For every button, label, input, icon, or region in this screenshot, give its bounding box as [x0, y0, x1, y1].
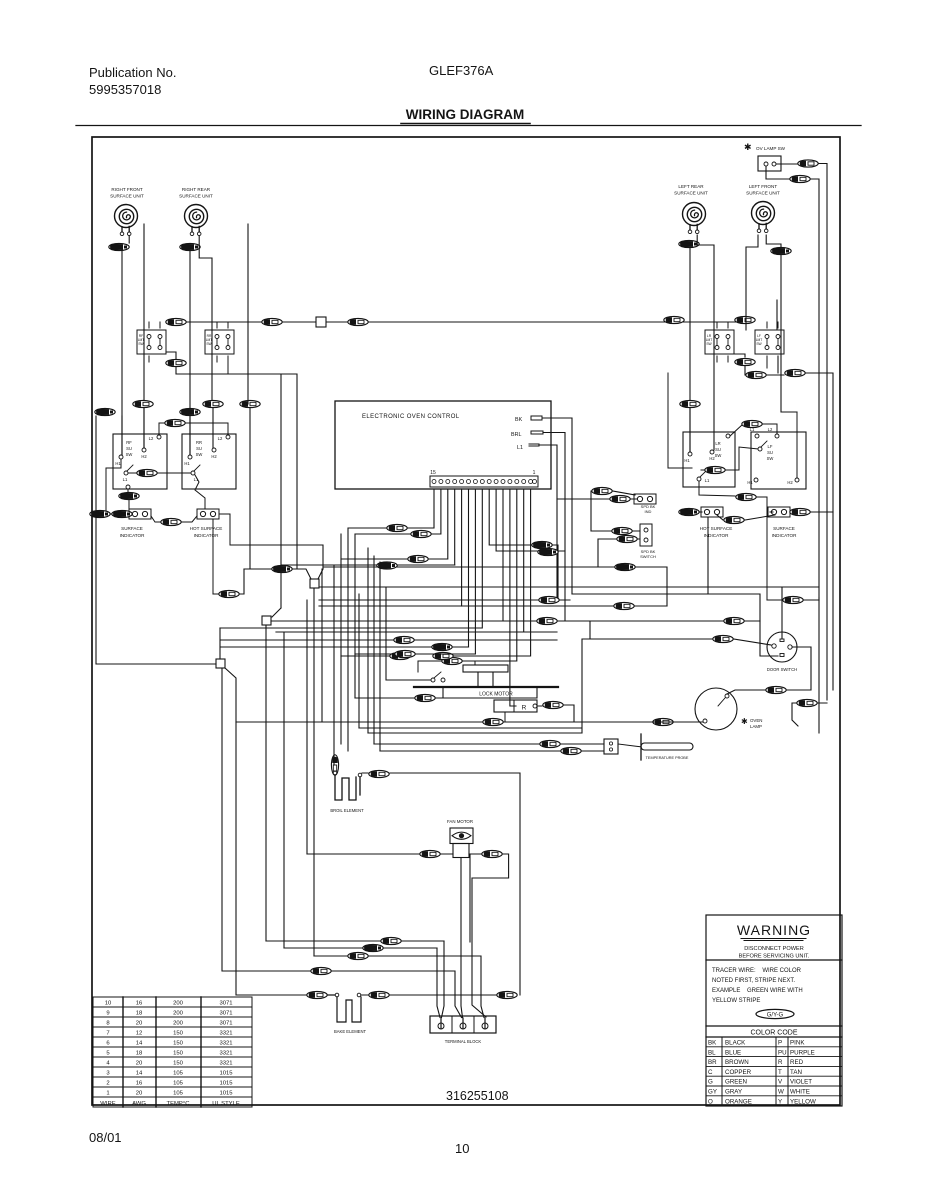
- connector rf-rr contact link: [128, 472, 136, 474]
- wire probe bus: [374, 744, 560, 751]
- svg-text:20: 20: [136, 1091, 143, 1097]
- node square A: [310, 579, 319, 588]
- svg-text:PU: PU: [778, 1049, 787, 1056]
- svg-text:L1: L1: [705, 478, 710, 483]
- connector fan right: [482, 850, 502, 857]
- svg-text:RED: RED: [790, 1059, 804, 1066]
- svg-text:105: 105: [173, 1081, 184, 1087]
- svg-text:SW: SW: [756, 342, 762, 346]
- eoc terminal strip: [430, 476, 538, 487]
- svg-text:BAKE ELEMENT: BAKE ELEMENT: [334, 1029, 367, 1034]
- wire eoc drop t4: [510, 489, 516, 706]
- wire eoc drop t11: [461, 489, 463, 606]
- wire bus y606: [319, 605, 667, 607]
- svg-text:TRACER WIRE: WIRE COLOR: TRACER WIRE: WIRE COLOR: [712, 968, 802, 974]
- wire lf limit drops: [767, 322, 778, 373]
- wire eoc drop t15: [355, 489, 434, 528]
- svg-text:1015: 1015: [219, 1091, 233, 1097]
- svg-text:BR: BR: [708, 1059, 717, 1066]
- svg-text:200: 200: [173, 1001, 184, 1007]
- svg-text:LEFT FRONT: LEFT FRONT: [749, 184, 777, 189]
- svg-text:GY: GY: [708, 1089, 717, 1096]
- wire eoc drop t9: [474, 489, 476, 654]
- wire rr coil left lead down: [189, 250, 191, 456]
- wire rf l1 to indicator: [127, 489, 129, 495]
- lock motor body: [443, 687, 537, 698]
- wire eoc drop t7: [489, 489, 558, 600]
- svg-text:150: 150: [173, 1051, 184, 1057]
- svg-text:RR: RR: [196, 440, 202, 445]
- connector rr surface unit: [180, 243, 200, 250]
- svg-text:18: 18: [136, 1011, 143, 1017]
- wire hot ind right down: [213, 514, 323, 594]
- svg-text:FAN MOTOR: FAN MOTOR: [447, 819, 473, 824]
- svg-text:GREEN: GREEN: [725, 1079, 747, 1086]
- svg-text:1015: 1015: [219, 1081, 233, 1087]
- svg-text:H2: H2: [211, 454, 217, 459]
- svg-text:IND: IND: [645, 509, 652, 514]
- rr su sw box: [182, 434, 236, 489]
- svg-text:150: 150: [173, 1031, 184, 1037]
- svg-text:GRAY: GRAY: [725, 1089, 742, 1096]
- lr limit switch: [705, 330, 734, 354]
- svg-text:RIGHT FRONT: RIGHT FRONT: [111, 187, 142, 192]
- node square C: [216, 659, 225, 668]
- wire rr third drop: [247, 224, 249, 401]
- connector row above su left: [95, 408, 115, 415]
- wire rr coil right lead: [199, 236, 212, 401]
- svg-text:L1: L1: [517, 445, 523, 451]
- wire bus y587: [319, 567, 819, 606]
- svg-text:16: 16: [136, 1081, 143, 1087]
- wire right row to frame drop: [745, 356, 833, 690]
- svg-text:316255108: 316255108: [446, 1089, 509, 1103]
- svg-text:LOCK MOTOR: LOCK MOTOR: [479, 692, 513, 698]
- svg-text:R: R: [778, 1059, 783, 1066]
- svg-text:SURFACE: SURFACE: [121, 526, 143, 531]
- temperature probe body: [640, 734, 642, 760]
- node square bus: [316, 317, 326, 327]
- wire limit lower left to rr: [176, 367, 297, 608]
- wire lf connector down: [777, 256, 797, 413]
- wire eoc drop t13: [341, 489, 448, 559]
- connector lr su pr: [736, 493, 756, 500]
- lf su sw box: [751, 432, 806, 489]
- svg-text:C: C: [708, 1069, 713, 1076]
- svg-text:3321: 3321: [219, 1041, 232, 1047]
- right rear surface unit coil: [185, 205, 208, 236]
- svg-text:H1: H1: [115, 461, 121, 466]
- svg-text:SW: SW: [126, 452, 133, 457]
- svg-text:DISCONNECT POWER: DISCONNECT POWER: [744, 946, 804, 952]
- wire node A down: [313, 588, 315, 956]
- svg-text:WHITE: WHITE: [790, 1089, 810, 1096]
- svg-text:16: 16: [136, 1001, 143, 1007]
- svg-text:9: 9: [106, 1011, 109, 1017]
- spd bk ind: [592, 487, 612, 494]
- connector ov lamp upper: [798, 160, 818, 167]
- wire into node B top: [272, 608, 284, 948]
- svg-text:L2: L2: [149, 436, 154, 441]
- wire eoc drop t10: [468, 489, 470, 647]
- tracer wire paragraph: [712, 968, 803, 1004]
- svg-text:WARNING: WARNING: [737, 922, 811, 938]
- tracer example oval: [756, 1009, 794, 1018]
- color code table text: [708, 1040, 816, 1106]
- wire ov lamp upper to right drop: [819, 164, 827, 701]
- connector bus a: [166, 318, 186, 325]
- svg-text:UL STYLE: UL STYLE: [212, 1101, 240, 1107]
- wire eoc drop t8: [220, 489, 482, 628]
- connector probe b: [561, 747, 581, 754]
- wire eoc l1 out: [539, 445, 557, 600]
- connector lf surface unit: [771, 247, 791, 254]
- connector lr-lf contact link: [701, 469, 704, 471]
- svg-text:P: P: [778, 1040, 782, 1047]
- wire node C top: [219, 628, 221, 659]
- svg-text:5995357018: 5995357018: [89, 82, 161, 97]
- svg-text:10: 10: [105, 1001, 112, 1007]
- connector ov lamp lower: [790, 175, 810, 182]
- svg-text:BROIL ELEMENT: BROIL ELEMENT: [330, 808, 364, 813]
- svg-text:BK: BK: [515, 417, 523, 423]
- svg-text:2: 2: [106, 1081, 109, 1087]
- connector right row f: [746, 371, 766, 378]
- svg-text:INDICATOR: INDICATOR: [704, 533, 730, 538]
- connector lock upper: [442, 657, 462, 664]
- wire door switch right out: [787, 647, 811, 690]
- svg-text:INDICATOR: INDICATOR: [120, 533, 146, 538]
- wire lr su l1 to connector: [699, 481, 735, 496]
- svg-text:G/Y-G: G/Y-G: [767, 1013, 784, 1019]
- svg-text:VIOLET: VIOLET: [790, 1079, 812, 1086]
- wire rf limit drops: [149, 322, 160, 362]
- svg-text:NOTED FIRST, STRIPE NEXT.: NOTED FIRST, STRIPE NEXT.: [712, 978, 795, 984]
- wire node B right y621: [271, 620, 668, 622]
- svg-text:SW: SW: [706, 342, 712, 346]
- rf limit switch: [137, 330, 166, 354]
- svg-text:H2: H2: [141, 454, 147, 459]
- svg-text:✱: ✱: [741, 717, 748, 726]
- wire bottom bus y948: [363, 944, 383, 951]
- wire terminal feeds: [437, 941, 444, 1018]
- svg-text:14: 14: [136, 1041, 143, 1047]
- svg-text:H2: H2: [709, 456, 715, 461]
- svg-text:1: 1: [533, 470, 536, 476]
- wire oven lamp left: [653, 718, 673, 725]
- svg-text:SURFACE UNIT: SURFACE UNIT: [746, 191, 780, 196]
- svg-text:SWITCH: SWITCH: [640, 554, 656, 559]
- svg-text:SURFACE: SURFACE: [773, 526, 795, 531]
- svg-text:W: W: [778, 1089, 784, 1096]
- top bus y322: [166, 321, 740, 323]
- left rear surface unit coil: [683, 203, 706, 234]
- wire gauge table: [93, 997, 252, 1107]
- svg-text:RF: RF: [126, 440, 132, 445]
- broil element: [331, 755, 338, 775]
- svg-text:20: 20: [136, 1061, 143, 1067]
- connector lr limit bottom: [735, 358, 755, 365]
- wire feed lr contact: [668, 373, 692, 468]
- wire bottom vertical 470: [470, 854, 475, 942]
- svg-text:LF: LF: [768, 444, 773, 449]
- svg-text:H1: H1: [684, 458, 690, 463]
- wire lr coil left lead down: [689, 249, 691, 453]
- svg-text:SURFACE UNIT: SURFACE UNIT: [674, 191, 708, 196]
- svg-text:GLEF376A: GLEF376A: [429, 63, 494, 78]
- wire rr limit drops: [217, 322, 228, 374]
- svg-text:SW: SW: [767, 456, 774, 461]
- wire rf coil left lead down: [121, 250, 123, 456]
- svg-text:7: 7: [106, 1031, 109, 1037]
- svg-text:10: 10: [455, 1141, 469, 1156]
- svg-text:L1: L1: [123, 477, 128, 482]
- terminal block: [430, 1016, 496, 1033]
- wire lock pedestal drop: [504, 712, 506, 722]
- wire bundle vertical 341: [340, 534, 342, 744]
- svg-text:3071: 3071: [219, 1001, 232, 1007]
- wire lf coil right lead to connector: [766, 235, 781, 247]
- connector rf surface unit: [109, 243, 129, 250]
- svg-text:✱: ✱: [744, 142, 752, 152]
- svg-text:O: O: [708, 1098, 713, 1105]
- wire rf second drop: [143, 224, 145, 448]
- wire bundle vertical 378: [386, 587, 431, 680]
- node square B: [262, 616, 271, 625]
- svg-text:SW: SW: [196, 452, 203, 457]
- svg-text:SURFACE UNIT: SURFACE UNIT: [110, 194, 144, 199]
- wire door switch left feed: [713, 635, 733, 642]
- svg-text:COPPER: COPPER: [725, 1069, 752, 1076]
- lock switch: [431, 678, 435, 682]
- connector bake right: [369, 991, 389, 998]
- svg-text:EXAMPLE GREEN WIRE WITH: EXAMPLE GREEN WIRE WITH: [712, 988, 803, 994]
- wire ov lamp lower to drop: [811, 179, 819, 598]
- lf limit switch: [755, 330, 784, 354]
- wire left vertical 96: [96, 416, 216, 664]
- oven lamp: [695, 688, 737, 730]
- svg-text:08/01: 08/01: [89, 1130, 122, 1145]
- svg-text:3321: 3321: [219, 1031, 232, 1037]
- svg-text:105: 105: [173, 1071, 184, 1077]
- wire node C down diagonal: [222, 668, 310, 995]
- connector ind link: [151, 516, 160, 522]
- connector bus c: [348, 318, 368, 325]
- wire lf coil left lead down: [746, 235, 758, 330]
- svg-text:TEMPERATURE PROBE: TEMPERATURE PROBE: [646, 756, 689, 760]
- connector fan left: [420, 850, 440, 857]
- connector lock left: [415, 694, 435, 701]
- connector broil right: [369, 770, 389, 777]
- wire bus y647: [221, 646, 469, 648]
- svg-text:INDICATOR: INDICATOR: [772, 533, 798, 538]
- svg-text:SURFACE UNIT: SURFACE UNIT: [179, 194, 213, 199]
- wire eoc drop t6: [496, 489, 565, 551]
- spd bk switch: [612, 527, 632, 534]
- diagram frame: [92, 137, 840, 1105]
- svg-text:ORANGE: ORANGE: [725, 1098, 752, 1105]
- connector bake far right: [497, 991, 517, 998]
- svg-text:H1: H1: [184, 461, 190, 466]
- svg-text:150: 150: [173, 1061, 184, 1067]
- door switch: [767, 632, 797, 662]
- svg-text:BLUE: BLUE: [725, 1049, 741, 1056]
- svg-text:3321: 3321: [219, 1061, 232, 1067]
- svg-text:INDICATOR: INDICATOR: [194, 533, 220, 538]
- wire node B down: [265, 625, 267, 941]
- left front surface unit coil: [752, 202, 775, 233]
- svg-text:YELLOW: YELLOW: [790, 1098, 816, 1105]
- svg-text:WIRING DIAGRAM: WIRING DIAGRAM: [406, 107, 525, 122]
- wire lf su h2 up: [796, 412, 798, 478]
- svg-text:SW: SW: [715, 453, 722, 458]
- svg-text:PINK: PINK: [790, 1040, 805, 1047]
- wire ov lamp sw lower: [766, 166, 789, 179]
- wire bus y640: [221, 639, 557, 641]
- wire lr limit bottom: [733, 354, 745, 357]
- ov lamp sw box: [758, 156, 781, 171]
- svg-text:3071: 3071: [219, 1011, 232, 1017]
- connector rf-rr l2 link: [159, 423, 164, 435]
- wire spd bk sw feed: [591, 491, 640, 567]
- svg-text:3071: 3071: [219, 1021, 232, 1027]
- lock motor bar: [414, 686, 558, 688]
- wire bus y594: [213, 569, 760, 621]
- svg-text:Y: Y: [778, 1098, 782, 1105]
- connector indicator link right: [717, 515, 723, 520]
- hot surface indicator right: [679, 508, 699, 515]
- wire rr l1 kink to hot indicator: [195, 475, 205, 508]
- connector right row g: [785, 369, 805, 376]
- warning box: [706, 915, 842, 1106]
- svg-text:TEMP°C: TEMP°C: [167, 1101, 191, 1107]
- svg-text:BK: BK: [708, 1040, 717, 1047]
- svg-text:L2: L2: [768, 427, 773, 432]
- wire limit row lower left: [166, 352, 176, 363]
- svg-text:G: G: [708, 1079, 713, 1086]
- wire eoc drop t12: [454, 489, 456, 565]
- svg-text:LAMP: LAMP: [750, 724, 762, 729]
- wire lr su h drops: [689, 404, 691, 452]
- connector below lock: [483, 718, 503, 725]
- wire eoc brl out: [543, 433, 565, 621]
- wire door switch upper feed: [668, 620, 723, 622]
- svg-text:DOOR SWITCH: DOOR SWITCH: [767, 667, 797, 672]
- connector limit lower left: [166, 359, 186, 366]
- svg-text:HOT SURFACE: HOT SURFACE: [190, 526, 223, 531]
- lock resistor R: [494, 700, 537, 712]
- svg-text:1: 1: [106, 1091, 109, 1097]
- hot surface indicator left: [197, 509, 219, 519]
- svg-text:AWG: AWG: [132, 1101, 146, 1107]
- connector lr surface unit: [679, 240, 699, 247]
- wire into node A left: [244, 545, 323, 579]
- surface indicator right: [768, 507, 790, 517]
- connector probe a: [540, 740, 560, 747]
- connector lock right: [543, 701, 563, 708]
- wire bus y600: [319, 587, 819, 639]
- svg-text:LR: LR: [715, 441, 720, 446]
- wire su right lower drops: [699, 512, 833, 594]
- svg-text:BEFORE SERVICING UNIT.: BEFORE SERVICING UNIT.: [739, 954, 810, 960]
- svg-text:L2: L2: [218, 436, 223, 441]
- connector bus e: [735, 316, 755, 323]
- svg-text:COLOR CODE: COLOR CODE: [750, 1030, 797, 1037]
- lr su sw box: [683, 432, 735, 487]
- svg-text:BROWN: BROWN: [725, 1059, 749, 1066]
- wire bottom bus y941: [381, 937, 401, 944]
- surface indicator: [129, 509, 151, 519]
- wire lr limit drops: [717, 322, 728, 362]
- wire eoc drop t5: [502, 489, 504, 620]
- svg-text:RIGHT REAR: RIGHT REAR: [182, 187, 211, 192]
- wire ov lamp sw upper: [776, 163, 797, 165]
- svg-text:12: 12: [136, 1031, 143, 1037]
- rr limit switch: [205, 330, 234, 354]
- bake element: [307, 991, 327, 998]
- svg-text:200: 200: [173, 1021, 184, 1027]
- wire bundle vertical 366: [307, 569, 359, 854]
- svg-text:SU: SU: [196, 446, 202, 451]
- svg-text:14: 14: [136, 1071, 143, 1077]
- wire bottom bus y956: [348, 952, 368, 959]
- wire right lower verticals: [818, 598, 820, 733]
- svg-text:BLACK: BLACK: [725, 1040, 746, 1047]
- svg-text:H2: H2: [787, 480, 793, 485]
- svg-text:T: T: [778, 1069, 782, 1076]
- svg-text:LEFT REAR: LEFT REAR: [678, 184, 704, 189]
- wire su drops left: [122, 401, 250, 569]
- svg-text:BRL: BRL: [511, 432, 522, 438]
- svg-text:3321: 3321: [219, 1051, 232, 1057]
- wire bundle vertical 355: [355, 534, 380, 751]
- svg-text:ELECTRONIC OVEN CONTROL: ELECTRONIC OVEN CONTROL: [362, 414, 460, 420]
- svg-text:SU: SU: [715, 447, 721, 452]
- rf su sw box: [113, 434, 167, 489]
- svg-text:1015: 1015: [219, 1071, 233, 1077]
- connector bus b: [262, 318, 282, 325]
- wire spd bk ind feed: [557, 491, 637, 499]
- svg-text:BL: BL: [708, 1049, 716, 1056]
- wire eoc drop t1: [454, 489, 531, 656]
- svg-text:18: 18: [136, 1051, 143, 1057]
- svg-text:TAN: TAN: [790, 1069, 802, 1076]
- svg-text:HOT SURFACE: HOT SURFACE: [700, 526, 733, 531]
- svg-text:105: 105: [173, 1091, 184, 1097]
- wire eoc bk out: [546, 418, 572, 594]
- wire lower lock bus: [236, 621, 712, 733]
- svg-text:OV LAMP SW: OV LAMP SW: [756, 146, 786, 151]
- temperature probe receptacle: [604, 739, 618, 754]
- svg-text:YELLOW STRIPE: YELLOW STRIPE: [712, 998, 760, 1004]
- lock motor cam: [463, 665, 508, 672]
- connector lr-lf link top: [730, 425, 742, 436]
- title rule: [76, 125, 861, 127]
- right front surface unit coil: [115, 205, 138, 236]
- svg-text:PURPLE: PURPLE: [790, 1049, 815, 1056]
- wire lr coil right lead down: [697, 235, 714, 450]
- electronic oven control box: [335, 401, 551, 489]
- wire rf coil right lead: [128, 236, 130, 243]
- svg-text:TERMINAL BLOCK: TERMINAL BLOCK: [445, 1039, 482, 1044]
- wire bundle vertical 334: [281, 565, 455, 765]
- svg-text:R: R: [522, 705, 527, 712]
- svg-text:150: 150: [173, 1041, 184, 1047]
- wire eoc drop t2: [276, 489, 524, 632]
- svg-text:Publication No.: Publication No.: [89, 65, 176, 80]
- svg-text:SU: SU: [767, 450, 773, 455]
- svg-text:OVEN: OVEN: [750, 718, 762, 723]
